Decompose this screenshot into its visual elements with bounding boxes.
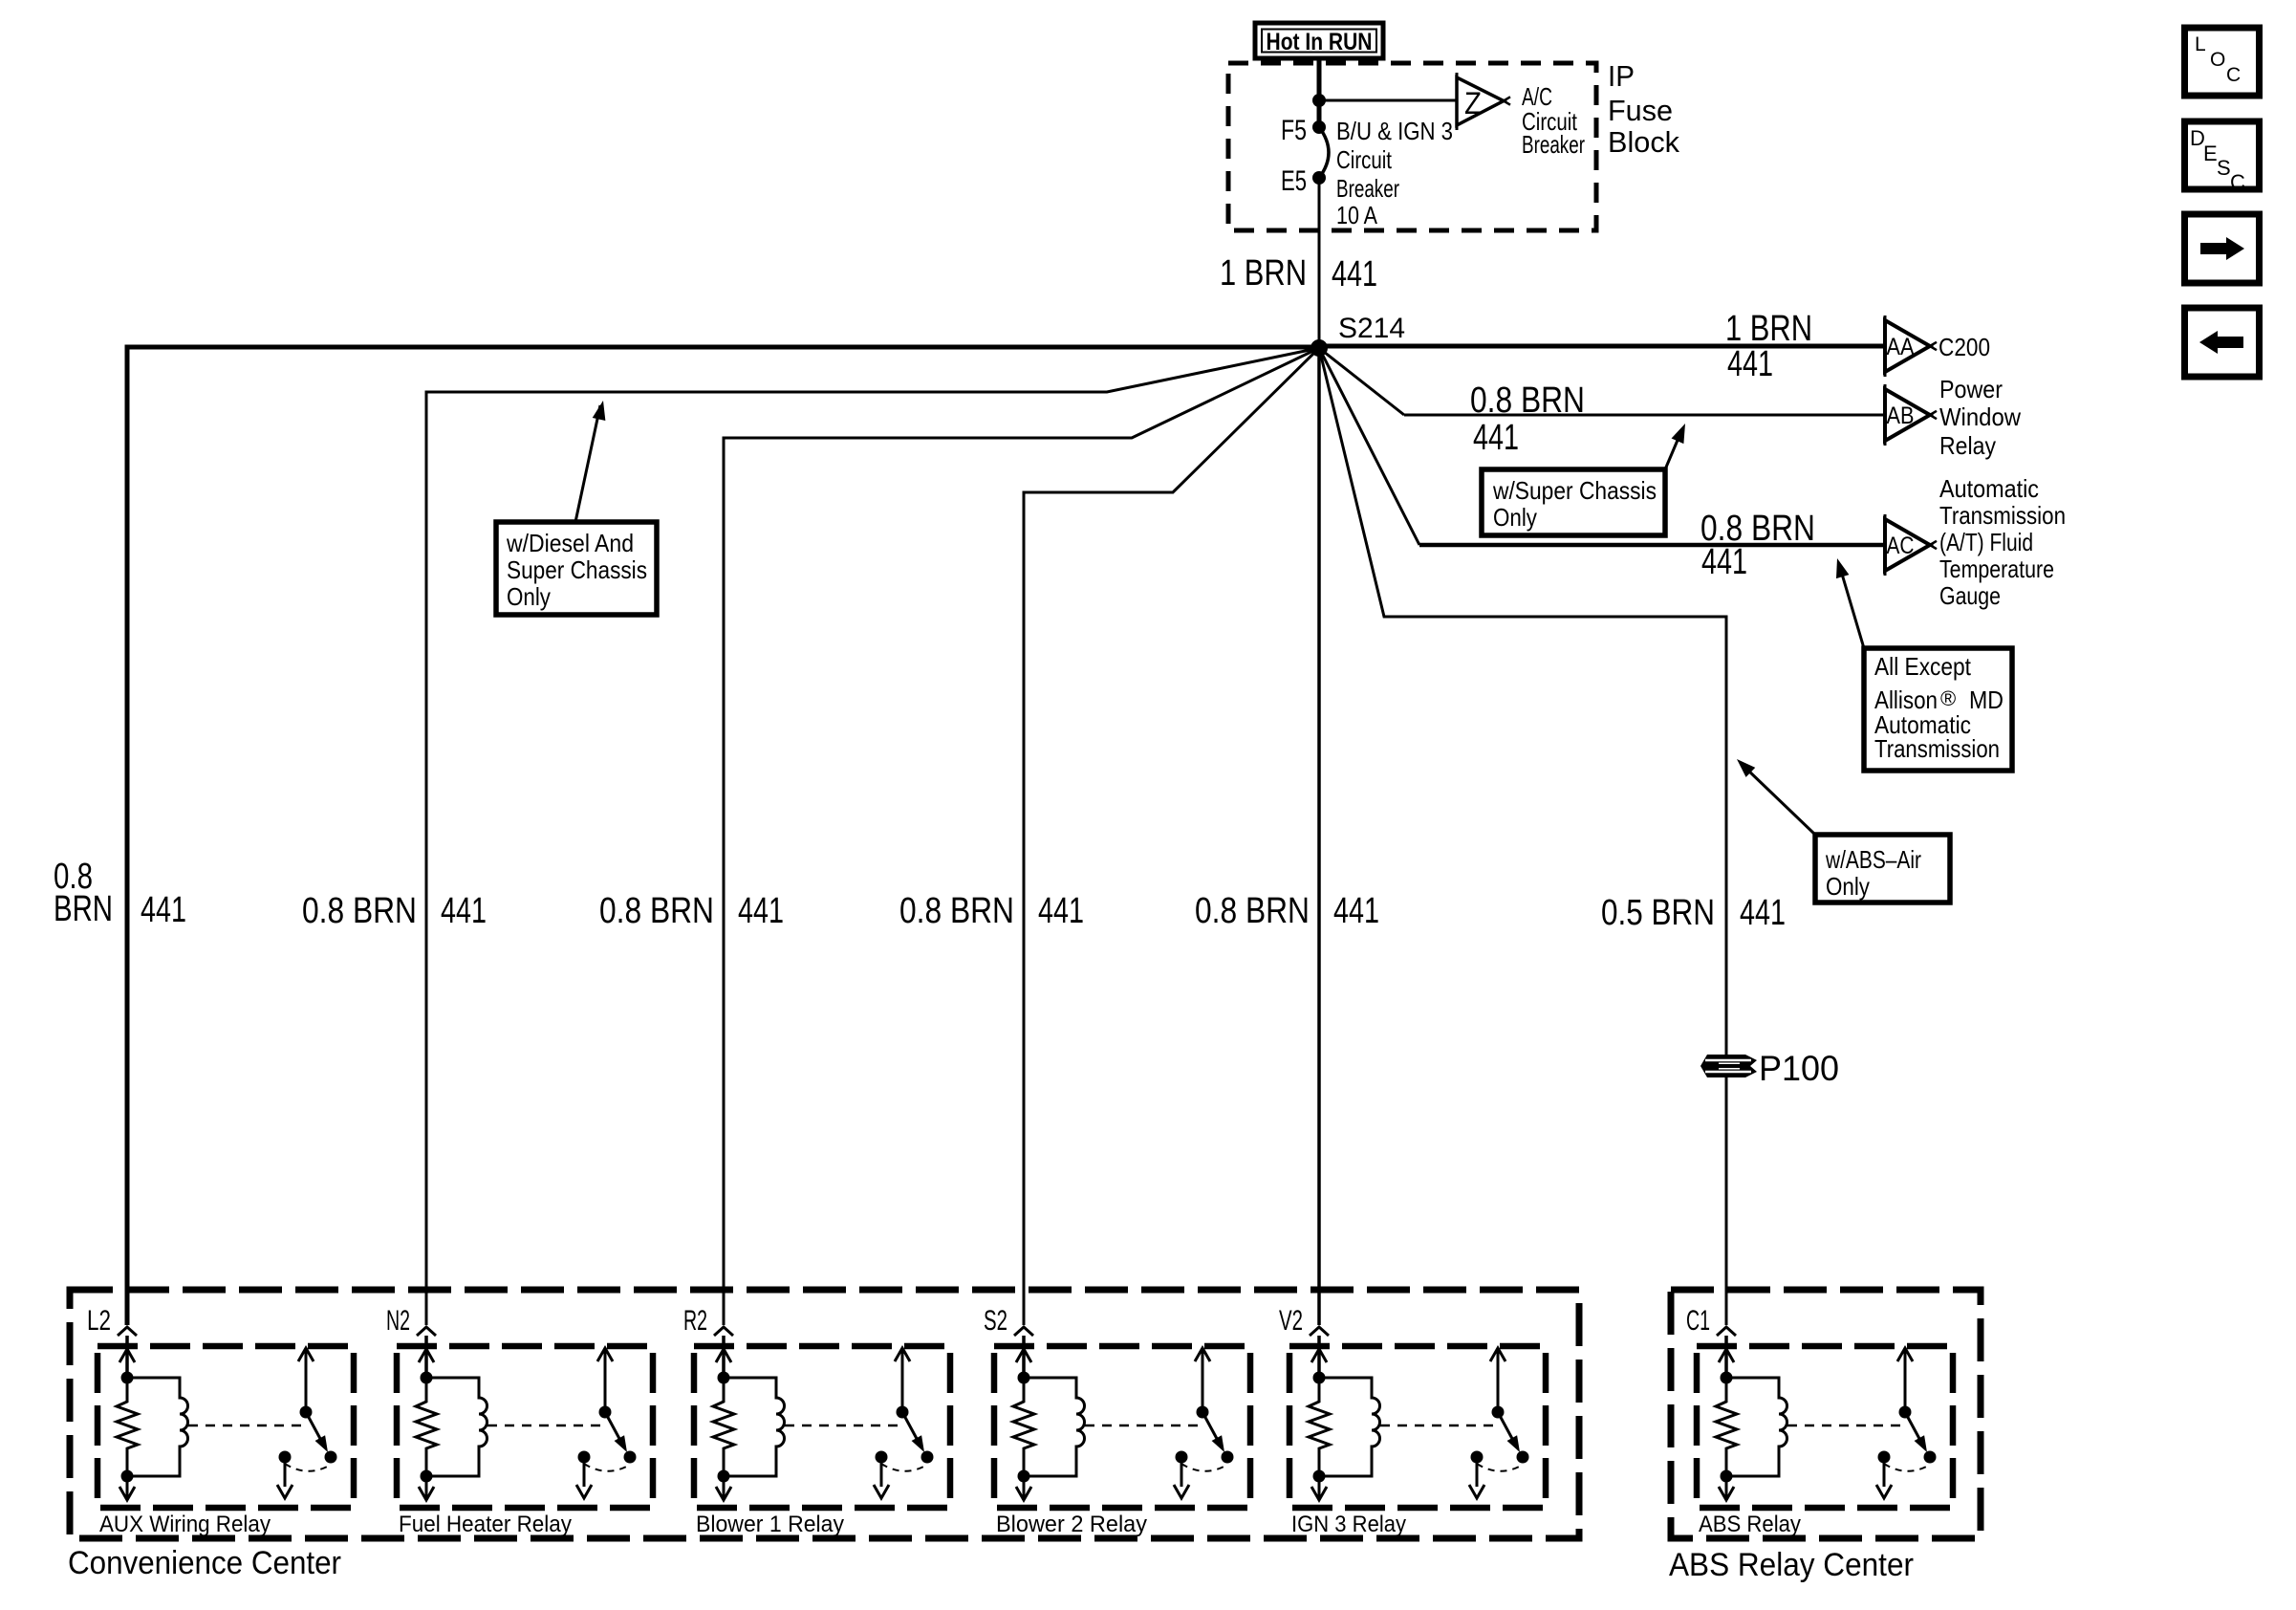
- svg-text:0.5 BRN: 0.5 BRN: [1601, 893, 1715, 933]
- svg-text:441: 441: [1727, 344, 1773, 384]
- svg-text:AUX Wiring Relay: AUX Wiring Relay: [99, 1512, 271, 1537]
- svg-text:ABS Relay: ABS Relay: [1699, 1512, 1801, 1537]
- svg-text:N2: N2: [386, 1305, 410, 1337]
- svg-text:Breaker: Breaker: [1336, 174, 1399, 203]
- svg-text:R2: R2: [683, 1305, 707, 1337]
- svg-text:®: ®: [1940, 686, 1956, 710]
- svg-text:V2: V2: [1279, 1305, 1303, 1337]
- svg-text:MD: MD: [1969, 685, 2004, 714]
- svg-text:w/Diesel And: w/Diesel And: [506, 529, 634, 557]
- svg-text:441: 441: [1332, 254, 1377, 294]
- svg-text:w/ABS–Air: w/ABS–Air: [1825, 845, 1921, 874]
- svg-text:C: C: [2226, 64, 2241, 86]
- svg-text:Relay: Relay: [1939, 431, 1996, 460]
- svg-text:E5: E5: [1281, 165, 1307, 197]
- svg-text:Hot In RUN: Hot In RUN: [1267, 29, 1373, 55]
- svg-text:10 A: 10 A: [1336, 201, 1378, 229]
- svg-text:F5: F5: [1281, 115, 1307, 146]
- svg-text:Temperature: Temperature: [1939, 555, 2054, 583]
- svg-text:Transmission: Transmission: [1939, 501, 2066, 530]
- svg-text:Breaker: Breaker: [1522, 130, 1585, 159]
- svg-text:Fuel Heater Relay: Fuel Heater Relay: [399, 1512, 572, 1537]
- svg-text:Only: Only: [1493, 503, 1537, 532]
- svg-text:ABS Relay Center: ABS Relay Center: [1669, 1547, 1914, 1583]
- svg-text:Blower 1 Relay: Blower 1 Relay: [696, 1512, 844, 1537]
- svg-text:B/U & IGN 3: B/U & IGN 3: [1336, 117, 1453, 145]
- svg-text:C1: C1: [1686, 1305, 1710, 1337]
- svg-text:441: 441: [1473, 418, 1519, 458]
- svg-text:Gauge: Gauge: [1939, 581, 2001, 610]
- svg-text:0.8 BRN: 0.8 BRN: [1195, 891, 1310, 931]
- svg-text:441: 441: [1701, 542, 1747, 582]
- svg-text:441: 441: [1038, 891, 1084, 931]
- svg-text:S214: S214: [1338, 313, 1405, 344]
- svg-text:P100: P100: [1759, 1049, 1839, 1088]
- svg-text:C: C: [2230, 170, 2245, 194]
- svg-text:0.8 BRN: 0.8 BRN: [1470, 381, 1585, 421]
- svg-text:AC: AC: [1887, 533, 1915, 559]
- svg-text:441: 441: [1740, 893, 1786, 933]
- svg-text:0.8 BRN: 0.8 BRN: [599, 891, 714, 931]
- svg-text:Super Chassis: Super Chassis: [507, 555, 647, 584]
- svg-text:Only: Only: [507, 582, 551, 611]
- svg-text:1 BRN: 1 BRN: [1725, 309, 1812, 349]
- svg-text:1 BRN: 1 BRN: [1220, 253, 1307, 294]
- svg-text:IGN 3 Relay: IGN 3 Relay: [1291, 1512, 1406, 1537]
- svg-text:Block: Block: [1608, 125, 1679, 159]
- svg-text:Z: Z: [1464, 86, 1482, 120]
- svg-text:Fuse: Fuse: [1608, 94, 1673, 127]
- svg-text:w/Super Chassis: w/Super Chassis: [1492, 476, 1657, 505]
- svg-text:0.8 BRN: 0.8 BRN: [302, 891, 417, 931]
- svg-text:Convenience Center: Convenience Center: [68, 1545, 341, 1581]
- svg-text:(A/T) Fluid: (A/T) Fluid: [1939, 528, 2033, 556]
- svg-text:441: 441: [441, 891, 487, 931]
- svg-text:441: 441: [738, 891, 784, 931]
- svg-text:Power: Power: [1939, 375, 2003, 403]
- svg-text:BRN: BRN: [54, 889, 113, 929]
- svg-text:441: 441: [141, 890, 186, 930]
- svg-text:AA: AA: [1887, 334, 1915, 360]
- svg-text:C200: C200: [1939, 333, 1990, 361]
- svg-text:S2: S2: [984, 1305, 1007, 1337]
- svg-text:L: L: [2195, 33, 2206, 55]
- svg-text:All Except: All Except: [1874, 652, 1972, 681]
- svg-text:Automatic: Automatic: [1939, 474, 2039, 503]
- svg-text:O: O: [2210, 49, 2225, 71]
- svg-text:Window: Window: [1939, 402, 2021, 431]
- svg-text:AB: AB: [1887, 402, 1915, 429]
- svg-text:Circuit: Circuit: [1336, 145, 1393, 174]
- svg-text:Only: Only: [1826, 872, 1870, 901]
- svg-text:IP: IP: [1608, 59, 1635, 93]
- svg-text:Blower 2 Relay: Blower 2 Relay: [996, 1512, 1147, 1537]
- svg-text:S: S: [2217, 156, 2231, 180]
- svg-text:L2: L2: [87, 1305, 111, 1337]
- svg-text:E: E: [2203, 141, 2218, 165]
- svg-text:0.8 BRN: 0.8 BRN: [899, 891, 1014, 931]
- svg-text:Transmission: Transmission: [1874, 734, 2000, 763]
- svg-text:441: 441: [1333, 891, 1379, 931]
